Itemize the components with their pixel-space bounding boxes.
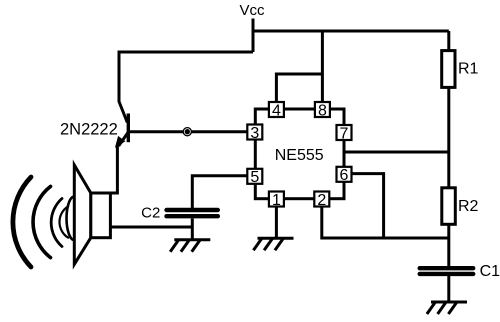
sound wave arc 3 (51, 199, 62, 247)
svg-text:3: 3 (250, 125, 259, 142)
wire: pin 1 to ground (275, 207, 278, 240)
sound wave arc 2 (33, 186, 50, 257)
wire: C1 to ground (447, 276, 450, 303)
svg-text:8: 8 (318, 102, 327, 119)
resistor R2 (442, 188, 456, 225)
wire: pin 6 to threshold run (352, 174, 384, 238)
sound wave arc 4 (59, 206, 68, 237)
svg-text:C2: C2 (141, 205, 160, 222)
pin 6 (337, 167, 352, 184)
pin 8 (315, 102, 330, 119)
pin 5 (247, 169, 262, 186)
sound wave arc 1 (13, 177, 31, 267)
pin 4 (269, 102, 284, 119)
ground under C2 (170, 240, 210, 252)
transistor Q1 2N2222 (119, 102, 129, 147)
svg-text:6: 6 (340, 167, 349, 184)
svg-text:2: 2 (317, 192, 326, 209)
svg-text:2N2222: 2N2222 (60, 120, 118, 138)
wire: C2 bottom to ground (191, 219, 194, 241)
pin 2 (314, 192, 329, 209)
wire: Vcc stem (252, 19, 255, 53)
wire: rail to R1 top (447, 31, 450, 51)
wire: rail to pin 8 (321, 31, 324, 103)
wire: pin 4 link to pin 8 (276, 74, 322, 103)
ground under pin 1 (253, 238, 293, 250)
svg-text:R2: R2 (458, 198, 479, 215)
wire: R1 to R2 (447, 87, 450, 188)
svg-text:NE555: NE555 (275, 147, 324, 164)
svg-text:7: 7 (340, 125, 349, 142)
svg-text:R1: R1 (458, 60, 479, 77)
pin 3 (247, 125, 262, 142)
capacitor C1 (420, 268, 474, 274)
pin 7 (337, 125, 352, 142)
svg-text:C1: C1 (480, 263, 500, 280)
speaker SP1 cone mouth arc (67, 197, 75, 240)
wire: speaker to C2 ground stem (110, 226, 192, 229)
wire: top rail Vcc to R1 (253, 30, 449, 33)
pin 1 (269, 192, 284, 209)
capacitor C2 (167, 210, 218, 216)
svg-text:Vcc: Vcc (239, 2, 265, 19)
transistor Q1 emitter arrow (115, 136, 126, 148)
IC U1 NE555 body (255, 109, 344, 199)
ground under C1 (427, 302, 467, 314)
resistor R1 (442, 51, 455, 88)
speaker SP1 cone (74, 165, 91, 264)
wire: R2 to C1 (447, 224, 450, 266)
node A: junction dot on base wire (183, 127, 193, 137)
wire: Q1 emitter to speaker (110, 146, 117, 194)
svg-text:4: 4 (272, 102, 281, 119)
svg-text:5: 5 (250, 169, 259, 186)
wire: Q1 base to pin 3 (128, 130, 248, 133)
wire: pin 5 to C2 top (192, 176, 248, 208)
wire: pin 7 to R divider (344, 151, 449, 154)
wire: pin 2 to R2/C1 junction (322, 207, 449, 239)
wire: left rail to Q1 collector (119, 52, 253, 102)
speaker SP1 magnet (91, 193, 111, 238)
svg-text:1: 1 (272, 192, 281, 209)
